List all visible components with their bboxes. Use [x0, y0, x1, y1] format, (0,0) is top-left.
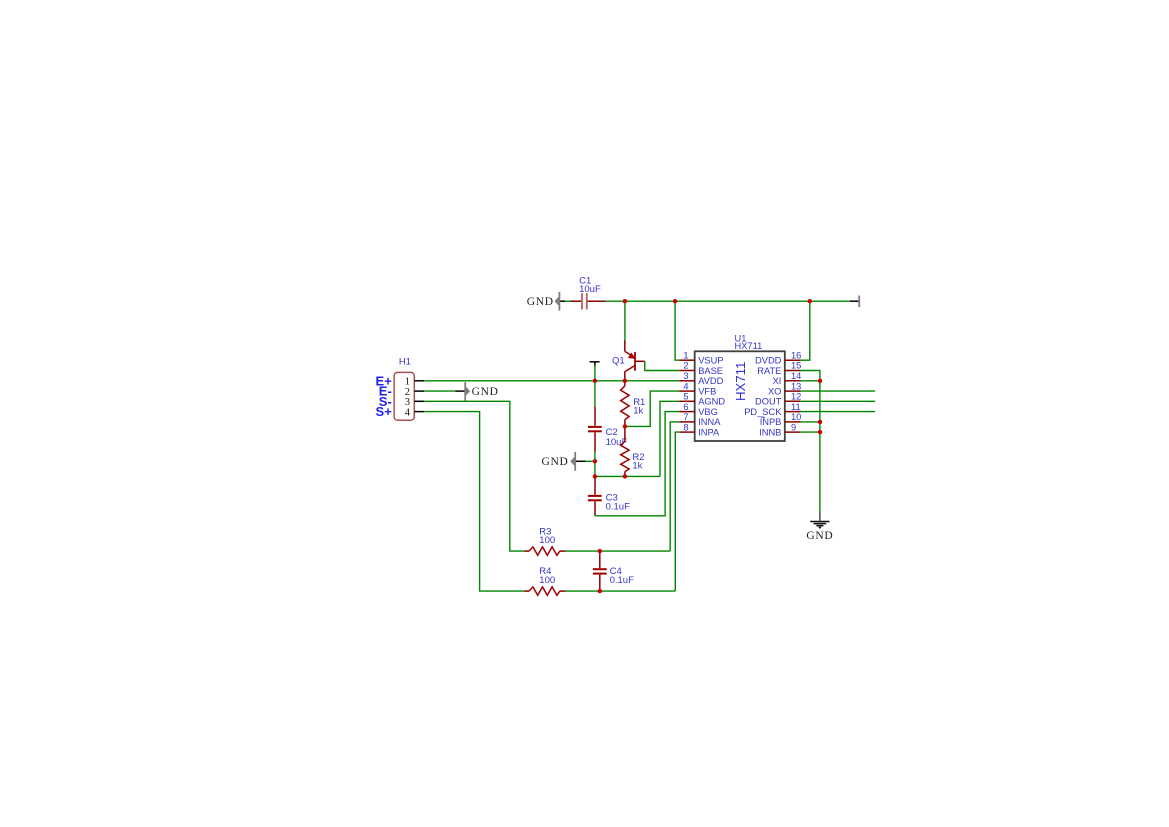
junction INNB: [818, 430, 822, 434]
junction VCC/Q1: [623, 299, 627, 303]
capacitor C1: [565, 276, 605, 310]
pin 7 INNA: [679, 412, 721, 427]
wire INPB to RATE vertical: [801, 421, 820, 423]
svg-text:4: 4: [683, 381, 688, 391]
svg-text:11: 11: [791, 402, 801, 412]
svg-text:AGND: AGND: [698, 397, 725, 407]
wire S+ net (H1 pin4 to R4): [424, 412, 524, 591]
pin 13 XO: [768, 381, 801, 396]
svg-text:VSUP: VSUP: [698, 356, 723, 366]
wire PD_SCK net: [801, 411, 876, 413]
svg-text:100: 100: [539, 535, 555, 546]
svg-text:1k: 1k: [633, 406, 643, 417]
svg-text:DVDD: DVDD: [755, 356, 782, 366]
svg-text:XO: XO: [768, 386, 781, 396]
pin 1 VSUP: [679, 350, 723, 365]
pin 2 BASE: [679, 361, 723, 376]
svg-text:10: 10: [791, 412, 801, 422]
resistor R1: [621, 381, 646, 427]
svg-text:100: 100: [539, 575, 555, 586]
junction AVDD/Q1 collector: [623, 379, 627, 383]
power symbol GND (middle left): [541, 452, 585, 471]
wire VCC drop to Q1 emitter: [624, 301, 626, 340]
svg-text:S+: S+: [376, 404, 393, 419]
svg-text:PD_SCK: PD_SCK: [744, 407, 782, 417]
svg-text:6: 6: [683, 402, 688, 412]
pin 12 DOUT: [755, 392, 801, 407]
junction R3/C4: [598, 549, 602, 553]
resistor R3: [525, 527, 566, 556]
wire R4 to INPA: [566, 590, 676, 592]
wire INNB to RATE vertical: [801, 431, 820, 433]
svg-text:16: 16: [791, 350, 801, 360]
pin 9 INNB: [759, 422, 800, 437]
svg-text:Q1: Q1: [612, 355, 625, 366]
junction XI/RATE: [818, 379, 822, 383]
svg-text:15: 15: [791, 361, 801, 371]
ground (earth symbol bottom right): [806, 511, 833, 542]
svg-text:3: 3: [683, 371, 688, 381]
svg-text:HX711: HX711: [735, 341, 763, 351]
pin 15 RATE: [757, 361, 801, 376]
svg-text:GND: GND: [806, 530, 833, 542]
pin 11 PD_SCK: [744, 402, 800, 417]
svg-text:1k: 1k: [632, 461, 642, 472]
op-amp U1 HX711 IC body: [695, 333, 785, 441]
pin 10 INPB: [760, 412, 802, 427]
wire C2 bottom to GND junction: [594, 452, 596, 477]
svg-text:7: 7: [683, 412, 688, 422]
svg-text:9: 9: [791, 422, 796, 432]
wire VBG net (C3 bottom to pin 6): [595, 412, 679, 516]
junction INPB: [818, 420, 822, 424]
svg-text:5: 5: [683, 392, 688, 402]
wire C2 top to AVDD: [594, 366, 596, 407]
pin 14 XI: [773, 371, 802, 386]
power symbol GND (H1 pin 2): [455, 382, 498, 401]
wire XI to RATE vertical: [801, 380, 820, 382]
wire INNA net vertical: [670, 422, 679, 551]
wire VFB net: [625, 391, 679, 426]
junction VCC/DVDD: [808, 299, 812, 303]
svg-text:2: 2: [683, 361, 688, 371]
junction AVDD/C2: [593, 379, 597, 383]
wire XO net: [801, 390, 876, 392]
wire S- net (H1 pin3 to R3): [424, 401, 524, 551]
svg-text:VBG: VBG: [698, 407, 718, 417]
svg-text:0.1uF: 0.1uF: [606, 501, 630, 512]
svg-text:4: 4: [405, 407, 411, 418]
svg-text:13: 13: [791, 381, 801, 391]
svg-text:VFB: VFB: [698, 386, 716, 396]
pin 5 AGND: [679, 392, 725, 407]
wire AGND net (C2/C3/R2 junction to pin 5): [595, 401, 679, 476]
svg-text:GND: GND: [541, 456, 568, 468]
wire H1 pin2 to GND: [424, 390, 455, 392]
svg-text:RATE: RATE: [757, 366, 781, 376]
svg-text:GND: GND: [527, 296, 554, 308]
svg-text:GND: GND: [472, 386, 499, 398]
svg-text:AVDD: AVDD: [698, 376, 723, 386]
wire top VCC rail: [605, 300, 850, 302]
svg-text:INPA: INPA: [698, 427, 720, 437]
terminal (unconnected, above C2): [590, 362, 600, 366]
svg-text:0.1uF: 0.1uF: [610, 575, 634, 586]
wire Q1 base to BASE pin 2: [645, 361, 679, 370]
wire VCC drop to DVDD pin 16: [801, 301, 810, 360]
junction R4/C4: [598, 589, 602, 593]
wire VCC drop to VSUP pin 1: [675, 301, 679, 360]
svg-text:DOUT: DOUT: [755, 397, 782, 407]
wire INPA net vertical: [675, 432, 679, 591]
svg-text:1: 1: [683, 350, 688, 360]
svg-text:14: 14: [791, 371, 801, 381]
svg-text:HX711: HX711: [733, 362, 748, 401]
junction VCC/VSUP: [673, 299, 677, 303]
capacitor C4: [593, 551, 634, 591]
pin 16 DVDD: [755, 350, 801, 365]
terminal (unconnected, top right): [850, 296, 859, 308]
svg-text:12: 12: [791, 392, 801, 402]
junction GND/C2 line: [593, 459, 597, 463]
connector H1: [394, 357, 424, 421]
pin 4 VFB: [679, 381, 716, 396]
svg-text:INNB: INNB: [759, 427, 781, 437]
wire GND stub to C2 line: [586, 460, 595, 462]
junction AGND/C2: [593, 474, 597, 478]
capacitor C3: [588, 476, 630, 515]
svg-text:8: 8: [683, 422, 688, 432]
pin 6 VBG: [679, 402, 718, 417]
capacitor C2: [588, 406, 628, 452]
resistor R2: [621, 426, 645, 476]
wire E+ / AVDD net: [424, 380, 679, 382]
svg-text:XI: XI: [773, 376, 782, 386]
wire DOUT net: [801, 400, 876, 402]
junction R1/R2/VFB: [623, 424, 627, 428]
junction AGND/R2: [623, 474, 627, 478]
svg-text:H1: H1: [399, 357, 411, 368]
svg-text:INNA: INNA: [698, 417, 721, 427]
svg-text:BASE: BASE: [698, 366, 723, 376]
transistor Q1 (PNP): [612, 341, 645, 381]
resistor R4: [525, 566, 566, 595]
pin 3 AVDD: [679, 371, 723, 386]
pin 8 INPA: [679, 422, 720, 437]
wire R3 to INNA: [566, 550, 671, 552]
wire RATE net down to GND: [801, 371, 820, 512]
power symbol GND (top, net VCC rail left end): [527, 292, 566, 311]
svg-text:INPB: INPB: [760, 417, 782, 427]
